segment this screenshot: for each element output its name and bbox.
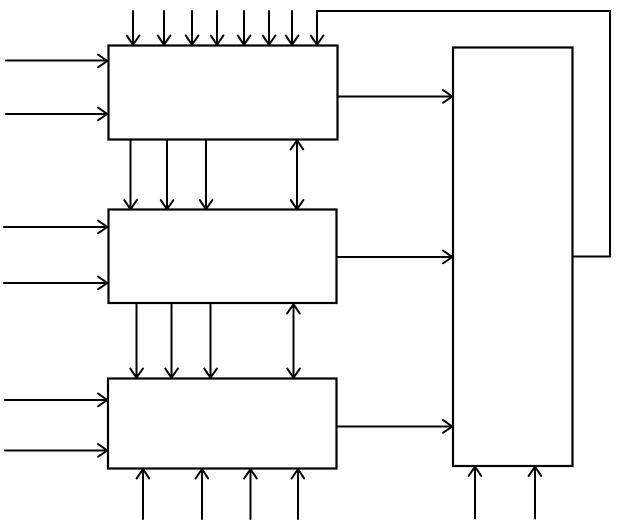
block B3 (bottom-left rectangle) [108,379,337,469]
wire: down arrow 2 from B2 to B3 [165,304,178,378]
wire: top input arrow 1 into B1 [127,11,140,45]
wire: top input arrow 4 into B1 [211,11,224,45]
wire: bidirectional arrow between B1 and B2 [291,140,304,209]
wire: output arrow from B2 to B4 [337,251,452,264]
wire: left input arrow 1 into B1 [6,55,107,68]
wire: bottom input arrow 1 into B4 [469,467,482,519]
wire: top input arrow 6 into B1 [263,11,276,45]
wire: bottom input arrow 3 into B3 [244,469,257,519]
wire: left input arrow 2 into B3 [5,444,107,457]
wire: bottom input arrow 2 into B3 [196,469,209,519]
wire: top input arrow 3 into B1 [186,11,199,45]
wire: top input arrow 7 into B1 [286,11,299,45]
wire: left input arrow 2 into B2 [4,277,107,290]
wire: left input arrow 1 into B3 [5,394,107,407]
block B2 (middle-left rectangle) [109,210,337,304]
wire: bottom input arrow 1 into B3 [137,469,150,519]
wire: feedback loop from B4 right side to top of B1 [311,11,610,257]
wire: down arrow 3 from B1 to B2 [200,140,213,209]
wire: down arrow 1 from B1 to B2 [124,140,137,209]
wire: top input arrow 5 into B1 [238,11,251,45]
wire: bidirectional arrow between B2 and B3 [287,304,300,377]
wire: down arrow 2 from B1 to B2 [161,140,174,209]
wire: left input arrow 1 into B2 [4,221,107,234]
wire: bottom input arrow 4 into B3 [292,469,305,519]
wire: bottom input arrow 2 into B4 [529,467,542,519]
wire: output arrow from B3 to B4 [337,420,452,433]
wire: down arrow 3 from B2 to B3 [204,304,217,378]
block B4 (tall right rectangle) [453,48,573,467]
block B1 (top-left rectangle) [109,46,338,140]
wire: down arrow 1 from B2 to B3 [130,304,143,378]
wire: left input arrow 2 into B1 [6,108,107,121]
wire: top input arrow 2 into B1 [158,11,171,45]
wire: output arrow from B1 to B4 [338,90,452,103]
